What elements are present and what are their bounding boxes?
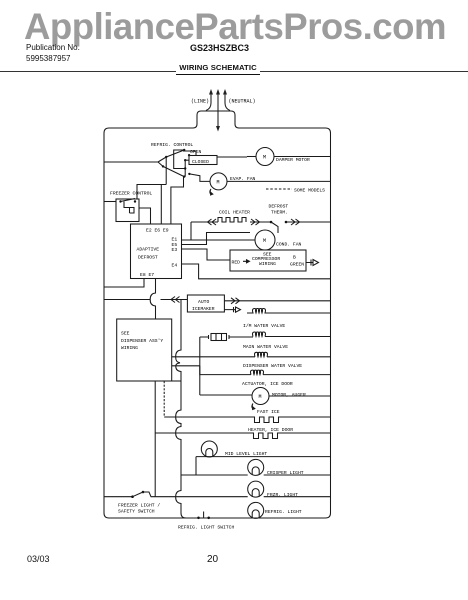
svg-text:ADAPTIVE: ADAPTIVE xyxy=(137,247,160,253)
svg-text:MAIN WATER VALVE: MAIN WATER VALVE xyxy=(243,344,288,350)
svg-text:FREEZER CONTROL: FREEZER CONTROL xyxy=(110,191,152,197)
svg-text:SOME MODELS: SOME MODELS xyxy=(294,188,325,194)
main water valve solenoid L2 xyxy=(253,332,266,337)
svg-text:FAST ICE: FAST ICE xyxy=(257,409,280,415)
refrig control switch pole B xyxy=(162,165,186,178)
title WIRING SCHEMATIC xyxy=(176,63,260,75)
svg-text:E3: E3 xyxy=(172,247,178,253)
refrig light switch S2 xyxy=(197,512,210,520)
wire: input to freezer control xyxy=(104,201,116,203)
wire: E4 bus to right edge xyxy=(182,264,331,279)
power cord ground prong xyxy=(216,89,220,132)
wire: icemaker feed from left edge xyxy=(104,299,187,301)
wire: line input to refrig control xyxy=(104,157,166,166)
wire: V2 lower segment to refrig switch xyxy=(176,475,196,518)
refrig control sense drop xyxy=(137,157,166,224)
frzr lamp DS3 xyxy=(248,481,264,497)
wire: body feed riser xyxy=(200,337,209,395)
model number xyxy=(190,43,249,53)
watermark logo xyxy=(24,6,468,48)
wire: E9 to evap node xyxy=(171,177,184,224)
wire: therm to right edge xyxy=(286,221,331,223)
wire: E5 to therm drop xyxy=(182,233,251,245)
main cabinet outline xyxy=(104,111,331,518)
svg-text:SAFETY SWITCH: SAFETY SWITCH xyxy=(118,509,155,515)
label FREEZER LIGHT / SAFETY SWITCH xyxy=(118,503,160,515)
svg-text:GREEN: GREEN xyxy=(290,262,304,268)
power cord neutral prong xyxy=(223,89,230,111)
auger motor M4 xyxy=(252,388,269,405)
svg-text:M: M xyxy=(263,155,266,161)
wire: main valve row to right edge xyxy=(265,336,331,338)
svg-text:M: M xyxy=(259,394,262,400)
connector chevrons icemaker feed xyxy=(171,297,180,303)
auger rotation arrow xyxy=(252,404,255,410)
heater ice door element xyxy=(252,433,283,439)
mid level lamp DS1 xyxy=(201,441,217,457)
svg-text:(LINE): (LINE) xyxy=(191,99,209,105)
svg-text:B: B xyxy=(293,255,296,261)
wire: crisper row to right edge xyxy=(264,474,331,476)
wire: crisper row from V2 xyxy=(181,474,248,476)
wire: coil heater row with connectors xyxy=(191,221,271,223)
fast ice heater element xyxy=(253,417,283,423)
wire: V1 dispenser box to heater row and freezer switch xyxy=(154,381,156,497)
dispenser water valve solenoid L3 xyxy=(255,352,268,357)
svg-text:ACTUATOR, ICE DOOR: ACTUATOR, ICE DOOR xyxy=(242,381,293,387)
wire: heater ice door row xyxy=(155,432,330,434)
svg-text:CRISPER LIGHT: CRISPER LIGHT xyxy=(267,470,304,476)
svg-text:WIRING: WIRING xyxy=(121,345,138,351)
svg-text:DAMPER MOTOR: DAMPER MOTOR xyxy=(276,157,310,163)
wire: fast ice row xyxy=(164,416,330,418)
svg-text:(NEUTRAL): (NEUTRAL) xyxy=(229,99,256,105)
connector chevrons right of therm xyxy=(291,219,300,225)
svg-text:REFRIG. CONTROL: REFRIG. CONTROL xyxy=(151,142,193,148)
svg-text:EVAP. FAN: EVAP. FAN xyxy=(230,176,256,182)
wire: fast ice drop from dispenser box xyxy=(163,381,165,417)
svg-text:E1: E1 xyxy=(172,237,178,243)
svg-text:REFRIG. LIGHT SWITCH: REFRIG. LIGHT SWITCH xyxy=(178,525,234,531)
wire: switch to frzr row xyxy=(143,492,248,497)
svg-text:MID LEVEL LIGHT: MID LEVEL LIGHT xyxy=(225,451,267,457)
red lead arrow xyxy=(243,260,250,263)
node CLOSED contact xyxy=(184,154,190,161)
svg-text:MOTOR, AUGER: MOTOR, AUGER xyxy=(272,392,306,398)
damper motor M1 xyxy=(247,148,331,166)
svg-text:FRZR. LIGHT: FRZR. LIGHT xyxy=(267,492,298,498)
wire: frzr row to right edge xyxy=(264,496,331,498)
svg-text:COIL HEATER: COIL HEATER xyxy=(219,210,250,216)
svg-text:I/M WATER VALVE: I/M WATER VALVE xyxy=(243,323,285,329)
compressor box xyxy=(230,250,306,271)
freezer control switch xyxy=(119,199,136,203)
wire: open contact to closed box xyxy=(183,151,196,156)
wire: dispenser valve row xyxy=(172,356,256,358)
svg-text:E2 E6 E9: E2 E6 E9 xyxy=(146,228,169,234)
footer page number xyxy=(207,554,218,565)
wire: closed box to damper row xyxy=(217,156,247,158)
svg-text:DISPENSER ASS'Y: DISPENSER ASS'Y xyxy=(121,338,163,344)
publication number block xyxy=(26,43,80,52)
connector chevrons right of coil xyxy=(251,219,260,225)
evap fan rotation arrow xyxy=(210,189,213,195)
adaptive defrost board xyxy=(131,224,182,279)
svg-text:RED: RED xyxy=(232,260,241,266)
refrig control switch pole A xyxy=(165,149,185,158)
wire: coil heater riser xyxy=(190,222,192,240)
wire: auger feed xyxy=(200,394,252,396)
compressor green lead connector xyxy=(306,260,319,266)
wire: actuator jog from dispenser box xyxy=(172,366,252,375)
actuator ice door solenoid L4 xyxy=(251,370,264,375)
svg-text:DISPENSER WATER VALVE: DISPENSER WATER VALVE xyxy=(243,363,302,369)
auto icemaker box xyxy=(187,295,224,312)
refrig lamp DS4 xyxy=(248,502,264,518)
svg-text:M: M xyxy=(217,179,220,185)
node D to evap feed xyxy=(189,174,210,182)
wire: actuator row to right edge xyxy=(263,374,331,376)
wire: mid level row xyxy=(196,456,331,458)
wire: icemaker top output to right edge xyxy=(224,300,330,302)
V1 hop over icemaker feed xyxy=(150,279,155,320)
freezer control sensor zigzag xyxy=(124,202,134,214)
svg-text:DEFROST: DEFROST xyxy=(138,255,158,261)
svg-text:AUTO: AUTO xyxy=(198,299,209,305)
label DEFROST THERM. xyxy=(269,204,289,216)
i/m water valve solenoid L1 xyxy=(247,309,271,314)
freezer control box xyxy=(116,199,139,222)
wire: E8 to left edge xyxy=(104,279,144,288)
see dispenser assy wiring box xyxy=(117,319,172,381)
CLOSED box xyxy=(189,156,217,165)
refrig control bracket xyxy=(174,150,186,169)
evap fan motor M2 xyxy=(210,173,331,190)
connector chevrons icemaker top output xyxy=(231,298,240,304)
defrost thermostat switch xyxy=(270,221,288,233)
wire: auger row to right edge xyxy=(269,395,331,397)
svg-text:COND. FAN: COND. FAN xyxy=(276,242,302,248)
wire: dispenser box stub to V2 xyxy=(172,380,182,382)
svg-text:E8 E7: E8 E7 xyxy=(140,272,154,278)
svg-text:DEFROST: DEFROST xyxy=(269,204,289,210)
svg-text:ICEMAKER: ICEMAKER xyxy=(192,306,215,312)
wire: V2 main drop with hops xyxy=(176,300,181,476)
crisper lamp DS2 xyxy=(248,459,264,475)
svg-text:HEATER, ICE DOOR: HEATER, ICE DOOR xyxy=(248,427,293,433)
svg-text:WIRING: WIRING xyxy=(259,261,276,267)
svg-text:E4: E4 xyxy=(172,263,178,269)
header rule xyxy=(0,71,468,72)
footer date xyxy=(27,554,50,564)
svg-text:CLOSED: CLOSED xyxy=(192,159,209,165)
wire: E3 to compressor RED xyxy=(182,249,231,260)
svg-text:REFRIG. LIGHT: REFRIG. LIGHT xyxy=(265,509,302,515)
wire: E1 to cond fan xyxy=(182,239,256,241)
wire: freezer switch row from left edge xyxy=(104,496,133,498)
wire: body to main valve coil xyxy=(229,336,253,338)
wire: dispenser valve row to right edge xyxy=(267,356,331,358)
svg-text:FREEZER LIGHT /: FREEZER LIGHT / xyxy=(118,503,160,509)
svg-text:M: M xyxy=(263,238,266,244)
wire: freezer control to E2 xyxy=(139,208,151,224)
wire: mid level riser V3 xyxy=(195,457,197,475)
freezer light safety switch S1 xyxy=(131,491,144,498)
cond fan motor M3 xyxy=(255,230,275,250)
dashed leader SOME MODELS xyxy=(266,188,292,190)
icemaker bottom output connector xyxy=(224,307,240,312)
connector chevrons left of coil xyxy=(208,219,217,225)
wire: i/m valve row to right edge xyxy=(268,312,331,314)
power cord line prong xyxy=(206,89,213,111)
coil heater element xyxy=(218,218,246,223)
water inlet valve body xyxy=(209,334,230,341)
refrig control contact column xyxy=(184,160,191,176)
svg-text:THERM.: THERM. xyxy=(271,210,288,216)
svg-text:SEE: SEE xyxy=(121,331,130,337)
